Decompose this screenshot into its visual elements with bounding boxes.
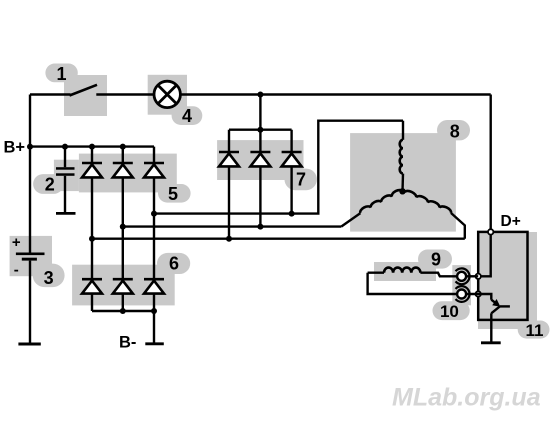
label 7 (field diodes): [285, 169, 317, 191]
wire: phase line 1 (y=213.6) with riser to stator top phase: [154, 121, 403, 214]
svg-text:4: 4: [182, 106, 192, 126]
node: diode column 2 tap on B+ bus: [120, 144, 126, 150]
diode VD4 (row 6, col 1): [82, 279, 102, 293]
diode VD1 (row 5, col 1): [82, 163, 102, 177]
wire: switch S1 to lamp HL1: [96, 93, 154, 95]
terminal ring: regulator to lower brush: [476, 291, 481, 296]
wire: rectifier column 3 (x=154): [153, 147, 155, 344]
wire: field diode bus: [229, 128, 292, 130]
label 8 (stator winding): [437, 120, 470, 140]
label 10 (brushes): [433, 301, 470, 320]
svg-text:MLab.org.ua: MLab.org.ua: [392, 384, 541, 412]
wire: capacitor C1 bottom lead: [64, 176, 66, 213]
ground terminal bar under regulator: [481, 341, 501, 344]
wire: lamp HL1 to D+ drop: [180, 93, 490, 95]
wire: rectifier column 1 (x=92): [91, 147, 93, 311]
gray background box of battery GB1: [10, 236, 52, 276]
gray background box of voltage regulator: [478, 232, 537, 329]
wire: top bus from left rail to switch S1: [30, 93, 71, 95]
svg-text:D+: D+: [501, 213, 521, 230]
node: column2 / phase line 2: [120, 224, 126, 230]
diode VD7 (row 7, col 1): [219, 152, 239, 166]
battery bottom terminal bar: [18, 343, 40, 346]
svg-text:9: 9: [431, 249, 441, 269]
stator phase U coil (vertical): [402, 121, 404, 140]
wire: feed from top bus to field diode bus: [259, 95, 261, 130]
node: column3 / phase line 1: [151, 211, 157, 217]
wire: left rail down from top bus to battery: [29, 95, 31, 253]
svg-text:11: 11: [526, 321, 544, 340]
wire: bottom bus of rectifier: [92, 310, 154, 312]
stator phase V coil (lower left): [360, 190, 402, 213]
capacitor C1 plates: [56, 167, 75, 170]
svg-text:8: 8: [450, 121, 460, 141]
wire: phase line 3 (y=238.7): [92, 237, 465, 239]
diode VD6 (row 6, col 3): [144, 279, 164, 293]
gray background box of brushes: [452, 265, 471, 305]
gray background box of stator winding: [350, 133, 456, 232]
node: field diode col3 / phase line 1: [289, 211, 295, 217]
svg-text:6: 6: [169, 254, 179, 274]
B- terminal bar: [145, 342, 164, 345]
wire: rotor left lead to lower brush: [368, 273, 457, 294]
battery GB1 positive plate: [16, 253, 45, 256]
svg-text:5: 5: [168, 184, 178, 204]
gray background box of diode row 6: [72, 265, 175, 306]
wire: phase line 2 (y=226.6): [123, 225, 341, 227]
terminal ring: D+ on regulator top: [488, 229, 493, 234]
svg-text:2: 2: [45, 175, 55, 195]
gray background box of switch S1: [64, 75, 107, 116]
wire: B+ bus: [30, 145, 154, 147]
svg-text:3: 3: [44, 268, 54, 288]
battery GB1 negative plate: [22, 258, 37, 261]
node: column3 / bottom bus: [151, 308, 157, 314]
node: column2 / bottom bus: [120, 308, 126, 314]
svg-text:10: 10: [440, 302, 459, 321]
wire: upper brush to regulator: [466, 275, 478, 277]
lamp HL1 cross: [158, 85, 177, 104]
wire: field diode column 1 (x=229): [228, 130, 230, 239]
voltage regulator box: [478, 232, 527, 320]
wire: battery negative to bottom terminal: [29, 261, 31, 344]
label 9 (rotor field winding): [418, 250, 452, 269]
gray background box of lamp HL1: [148, 75, 187, 115]
rotor field winding coil: [368, 272, 384, 274]
transistor VT1 collector diagonal: [491, 306, 500, 313]
node: field diode col1 / phase line 3: [226, 236, 232, 242]
stator phase W coil (lower right): [405, 191, 452, 213]
stator star point node: [399, 188, 405, 194]
node: diode column 1 tap on B+ bus: [89, 144, 95, 150]
label 3 (battery): [33, 264, 65, 288]
upper brush / slip ring: [457, 272, 466, 281]
wire: lower brush to regulator transistor base: [466, 294, 491, 300]
wire: field diode column 3 (x=291.6): [290, 130, 292, 214]
terminal ring: regulator to upper brush: [476, 274, 481, 279]
svg-text:+: +: [12, 234, 21, 251]
gray background box of capacitor C1: [54, 160, 79, 191]
node: field diode col2 / phase line 2: [257, 224, 263, 230]
svg-text:B-: B-: [119, 334, 136, 352]
node: field diode bus junction: [257, 127, 263, 133]
gray background box of diode row 7: [217, 140, 303, 180]
label 5 (positive rectifier diodes): [158, 184, 191, 203]
wire: regulator internal D+ branch to upper brush: [478, 232, 491, 276]
wire: rectifier column 2 (x=122.8): [122, 147, 124, 311]
svg-text:7: 7: [296, 170, 306, 190]
transistor VT1 emitter diagonal with arrow: [491, 300, 498, 306]
diode VD3 (row 5, col 3): [144, 163, 164, 177]
switch S1 blade: [70, 85, 98, 96]
gray background box of rotor winding: [374, 262, 436, 281]
svg-text:B+: B+: [4, 139, 26, 157]
lamp HL1 circle: [154, 81, 180, 107]
capacitor C1 ground terminal bar: [56, 212, 76, 215]
diode VD2 (row 5, col 2): [113, 163, 133, 177]
wire: field diode column 2 (x=260.4): [259, 130, 261, 227]
gray background box of diode row 5: [79, 154, 177, 193]
wire: capacitor C1 top lead: [64, 147, 66, 168]
node: top bus / field-diode feed junction: [257, 92, 263, 98]
svg-text:-: -: [14, 262, 19, 279]
node B+ junction on left rail: [27, 144, 33, 150]
wire: D+ riser from top bus to regulator: [490, 95, 492, 232]
lower brush / slip ring: [457, 290, 466, 299]
diode VD8 (row 7, col 2): [250, 152, 270, 166]
svg-text:1: 1: [56, 64, 66, 84]
label 2 (capacitor): [33, 174, 64, 194]
node: capacitor tap on B+ bus: [62, 144, 68, 150]
label 6 (negative rectifier diodes): [157, 253, 190, 274]
wire: rotor right lead to upper brush: [420, 273, 456, 277]
label 4 (lamp): [172, 106, 203, 125]
label 11 (voltage regulator): [518, 321, 550, 339]
label 1 (switch): [45, 64, 77, 83]
transistor VT1 base lead: [500, 305, 510, 307]
wire: transistor to ground: [490, 313, 492, 343]
node: column1 / phase line 3: [89, 236, 95, 242]
diode VD5 (row 6, col 2): [113, 279, 133, 293]
diode VD9 (row 7, col 3): [282, 152, 302, 166]
